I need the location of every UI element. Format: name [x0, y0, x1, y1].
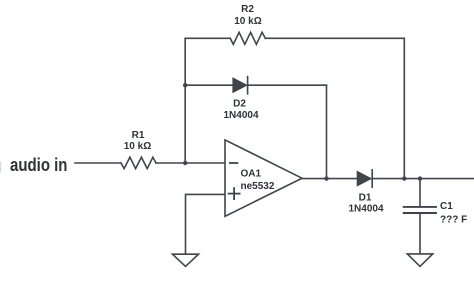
node: R2 vertical / output rail junction	[402, 176, 406, 180]
clipped glyph at left edge	[0, 162, 1, 173]
resistor R2	[230, 32, 265, 44]
svg-text:??? F: ??? F	[440, 214, 467, 225]
wire: top rail right segment	[265, 37, 404, 39]
svg-text:C1: C1	[440, 201, 453, 212]
node: inverting input junction	[183, 161, 187, 165]
svg-text:R2: R2	[241, 4, 254, 15]
wire: op-amp output rail to right edge	[302, 178, 357, 180]
svg-text:audio in: audio in	[10, 154, 67, 175]
svg-text:1N4004: 1N4004	[348, 204, 383, 215]
resistor R1	[121, 157, 156, 168]
wire: non-inverting input to ground	[186, 194, 226, 254]
node: output feedback junction	[324, 176, 328, 180]
op-amp OA1 triangle	[225, 140, 302, 216]
svg-text:D1: D1	[359, 193, 372, 204]
svg-text:10 kΩ: 10 kΩ	[124, 141, 151, 152]
svg-text:OA1: OA1	[241, 169, 262, 180]
svg-text:10 kΩ: 10 kΩ	[234, 16, 261, 27]
diode D1	[357, 170, 372, 187]
capacitor C1	[404, 207, 436, 213]
svg-text:ne5532: ne5532	[241, 181, 275, 192]
op-amp inverting input marker	[230, 162, 238, 164]
wire: D2 rail left segment	[185, 84, 233, 86]
wire: C1 branch vertical	[419, 179, 421, 206]
node: junction D2 rail / left vertical	[183, 83, 187, 87]
wire: audio in lead to R1	[75, 162, 121, 164]
diode D2	[233, 77, 248, 94]
ground symbol (right, C1)	[407, 254, 433, 267]
svg-text:R1: R1	[132, 130, 145, 141]
node: C1 branch junction	[418, 176, 422, 180]
ground symbol (left, non-inverting input)	[173, 254, 199, 266]
wire: top rail left segment	[185, 37, 230, 39]
svg-text:D2: D2	[233, 99, 246, 110]
svg-text:1N4004: 1N4004	[223, 110, 258, 121]
wire: C1 to ground	[419, 214, 421, 254]
op-amp non-inverting input marker	[229, 188, 240, 199]
wire: R1 to op-amp inverting input (node at x185)	[156, 162, 225, 164]
wire: R2 right vertical down to output rail	[403, 38, 405, 178]
wire: output rail after D1 to right edge	[372, 178, 474, 180]
wire: left feedback vertical (x185, top rail to inverting node)	[184, 38, 186, 163]
wire: D2 rail right segment	[248, 84, 327, 86]
wire: D2 right vertical down to output rail	[326, 85, 328, 178]
